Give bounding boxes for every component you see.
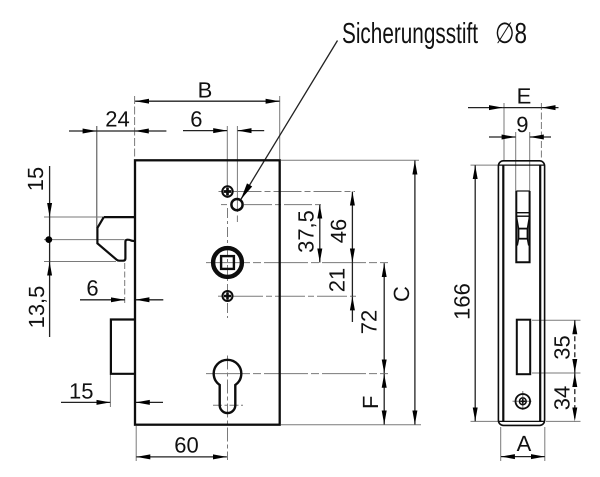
- center line top screw horizontal: [219, 191, 223, 193]
- dim 6 left stub: [80, 299, 125, 301]
- ext line latch left edge up to 24 dim: [96, 126, 98, 228]
- svg-text:B: B: [198, 78, 213, 103]
- dim 46 line: [351, 192, 353, 263]
- side screw outer circle: [516, 394, 531, 409]
- dim 166 line: [474, 165, 476, 421]
- dim 15 bottom right stub: [136, 401, 163, 403]
- svg-text:37,5: 37,5: [294, 210, 319, 253]
- ext line case left edge top (B/24): [134, 96, 136, 159]
- ext line case bottom left (60 dim): [135, 426, 137, 461]
- side screw cross: [520, 399, 525, 404]
- ext line bolt slot bottom right: [532, 372, 581, 374]
- center line follower horizontal: [206, 262, 388, 264]
- svg-text:166: 166: [450, 283, 475, 320]
- ext line A right: [544, 427, 546, 461]
- side screw cross ticks: [513, 400, 534, 402]
- dim 6 top right stub: [238, 130, 265, 132]
- svg-text:Sicherungsstift: Sicherungsstift: [342, 18, 478, 50]
- svg-text:C: C: [389, 286, 414, 302]
- latch slot outline: [516, 191, 529, 262]
- bolt slot: [517, 320, 530, 375]
- dot chain dimension 15/13,5: [45, 236, 52, 243]
- faceplate inner right thick line: [539, 165, 541, 421]
- svg-text:13,5: 13,5: [24, 286, 49, 329]
- center line euro circle horizontal: [206, 373, 388, 375]
- ext line 9 right / slot: [529, 132, 531, 191]
- dim E line right stub: [542, 107, 559, 109]
- lock case outline: [135, 160, 280, 424]
- follower square: [221, 256, 234, 269]
- ext line 9 left / slot: [515, 132, 517, 191]
- center line pin horizontal: [221, 204, 227, 206]
- leader arrowhead: [241, 183, 252, 199]
- latch head box: [519, 229, 528, 239]
- svg-text:35: 35: [549, 335, 574, 359]
- dim 60 line: [136, 456, 227, 458]
- latch outline: [97, 217, 135, 261]
- side screw inner circle: [519, 398, 526, 405]
- ext line pin vertical (6 dim): [236, 126, 238, 212]
- svg-text:A: A: [517, 431, 532, 456]
- dim 35 line: [574, 320, 576, 373]
- ext line bolt slot top right: [532, 319, 581, 321]
- latch divider lines: [516, 212, 529, 214]
- svg-text:9: 9: [516, 112, 528, 137]
- svg-text:15: 15: [23, 167, 48, 191]
- dim 21 line: [351, 263, 353, 297]
- ext line latch step (dot line): [44, 239, 125, 241]
- dim 34 line: [574, 373, 576, 421]
- dim 72 line: [383, 263, 385, 373]
- ext line 166 bottom / 34 bottom: [471, 420, 500, 422]
- ext line bolt left edge (15 bottom): [109, 375, 111, 408]
- svg-text:72: 72: [357, 310, 382, 334]
- lower screw circle: [223, 291, 233, 301]
- top screw cross: [224, 188, 232, 196]
- dim 9 left stub: [489, 136, 516, 138]
- ext line case right edge top (B): [279, 96, 281, 159]
- leader line: [241, 41, 338, 200]
- ext line A left: [500, 427, 502, 461]
- euro profile cylinder hole: [214, 360, 242, 413]
- svg-text:6: 6: [86, 276, 98, 301]
- dim B line: [135, 100, 280, 102]
- ext line 166 top: [471, 164, 500, 166]
- top screw circle: [222, 186, 232, 196]
- pin circle Sicherungsstift: [231, 199, 242, 210]
- ext line case top to C dim: [281, 159, 419, 161]
- latch top edge: [104, 216, 135, 218]
- ext line latch bottom (13,5): [44, 261, 116, 263]
- ext line latch inner vertical (6 left): [124, 263, 126, 305]
- svg-text:60: 60: [174, 433, 198, 458]
- dim 37,5 line: [319, 205, 321, 263]
- dim 15 left vertical line with down arrow: [49, 166, 51, 217]
- center line follower vertical: [227, 208, 229, 318]
- dim A line: [501, 456, 545, 458]
- dim 13,5 line through dot: [49, 217, 51, 262]
- dim E line mid: [503, 107, 542, 109]
- faceplate outer rounded rect: [498, 161, 544, 426]
- dim C line: [414, 161, 416, 425]
- svg-text:15: 15: [69, 379, 93, 404]
- svg-text:E: E: [517, 84, 532, 109]
- faceplate inner top line: [499, 164, 544, 166]
- faceplate inner bottom line: [499, 420, 544, 422]
- svg-text:21: 21: [325, 268, 350, 292]
- svg-text:34: 34: [549, 386, 574, 410]
- dim 13,5 up arrow stub: [49, 262, 51, 337]
- dim 24 line right stub: [135, 130, 167, 132]
- lower screw cross: [224, 292, 231, 299]
- svg-text:46: 46: [326, 219, 351, 243]
- follower outer circle: [213, 248, 242, 277]
- svg-text:∅8: ∅8: [495, 18, 527, 50]
- center line euro lower arc horizontal: [213, 404, 243, 406]
- dim 15 bottom left stub: [61, 401, 110, 403]
- dim E line left stub: [468, 107, 503, 109]
- dim 24 line middle: [97, 130, 135, 132]
- dim 24 line left stub: [69, 130, 97, 132]
- ext line top screw vertical (6 dim): [226, 126, 228, 198]
- dim F line: [383, 374, 385, 425]
- ext line 15 top: [44, 216, 104, 218]
- dim 9 right stub: [530, 136, 551, 138]
- ext line E right: [540, 103, 542, 160]
- center line lower screw horizontal: [218, 295, 222, 297]
- dim 6 right stub: [135, 299, 163, 301]
- svg-text:F: F: [358, 396, 383, 409]
- svg-text:6: 6: [190, 106, 202, 131]
- ext line case bottom to C/F dims: [281, 424, 421, 426]
- latch bevel taper: [516, 216, 529, 228]
- ext line E left: [503, 103, 505, 160]
- latch lower taper: [517, 239, 529, 246]
- faceplate inner left thick line: [502, 165, 504, 421]
- latch slot top edge: [516, 190, 529, 192]
- center line euro cylinder vertical: [227, 356, 229, 461]
- svg-text:24: 24: [105, 107, 129, 132]
- bolt: [111, 320, 135, 374]
- dim 21 up arrow stub: [351, 296, 353, 322]
- dim 6 top left stub: [183, 130, 227, 132]
